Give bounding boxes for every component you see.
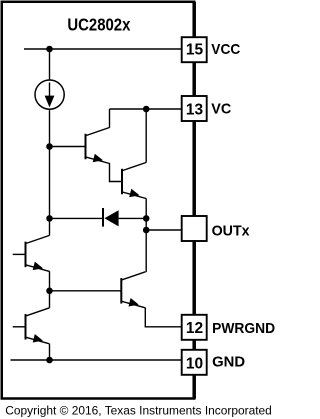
wire node A to node B: [49, 147, 51, 219]
node G junction on GND rail: [46, 357, 53, 364]
wire node D to node E: [145, 218, 147, 230]
transistor Q2: [122, 163, 146, 199]
wire diode anode to node D: [119, 217, 147, 219]
pin 15 box: [182, 37, 207, 62]
wire Q1 collector to VC line: [109, 109, 111, 128]
right-edge pin bus: [192, 2, 196, 399]
wire Q2 emitter to node D: [145, 198, 147, 218]
wire VC line: [110, 108, 182, 110]
node D junction: [143, 215, 150, 222]
svg-text:12: 12: [186, 320, 203, 337]
wire node A to Q1 base: [50, 146, 86, 148]
pin 10 box: [182, 350, 207, 375]
pin 13 box: [182, 96, 207, 121]
IC boundary frame: [2, 2, 195, 399]
node F junction: [46, 288, 53, 295]
svg-text:UC2802x: UC2802x: [67, 15, 130, 35]
svg-text:VC: VC: [211, 101, 231, 118]
wire rail to current source: [49, 49, 51, 80]
svg-text:GND: GND: [212, 354, 245, 371]
wire Q2 collector to node C: [145, 109, 147, 163]
svg-text:PWRGND: PWRGND: [212, 320, 275, 337]
wire VCC rail: [24, 48, 182, 50]
wire Q3 base from node F: [50, 290, 122, 292]
wire current source to node A: [49, 110, 51, 146]
wire node B to diode cathode: [50, 217, 104, 219]
svg-text:10: 10: [186, 356, 203, 373]
wire Q5 collector to node B: [49, 218, 51, 235]
transistor Q3: [121, 272, 145, 308]
wire Q3 emitter to PWRGND pin: [145, 308, 181, 327]
node A junction: [46, 143, 53, 150]
node C junction on VC line: [143, 106, 150, 113]
pin OUTx box: [182, 216, 207, 241]
wire Q5 emitter to node F: [49, 271, 51, 290]
svg-text:OUTx: OUTx: [212, 223, 251, 240]
svg-text:VCC: VCC: [211, 41, 240, 58]
svg-text:13: 13: [186, 101, 204, 118]
wire Q6 emitter to GND rail: [49, 344, 51, 360]
wire Q6 collector to node F: [49, 291, 51, 308]
wire Q1 emitter to Q2 base: [110, 163, 123, 182]
svg-text:Copyright © 2016, Texas Instru: Copyright © 2016, Texas Instruments Inco…: [5, 404, 272, 418]
wire Q5 base stub: [13, 253, 26, 255]
transistor Q1: [86, 128, 110, 164]
current source I1: [35, 80, 64, 109]
node junction on VCC rail: [46, 46, 53, 53]
transistor Q5: [26, 235, 50, 271]
transistor Q6: [26, 308, 50, 344]
svg-text:15: 15: [186, 41, 204, 58]
node B junction: [46, 215, 53, 222]
diode D1: [103, 208, 119, 227]
wire node E to Q3 collector: [145, 230, 147, 272]
wire Q6 base stub: [13, 326, 26, 328]
node E junction: [143, 227, 150, 234]
pin 12 box: [182, 315, 207, 340]
wire GND rail: [11, 359, 182, 361]
wire node E to OUTx pin: [146, 229, 181, 231]
